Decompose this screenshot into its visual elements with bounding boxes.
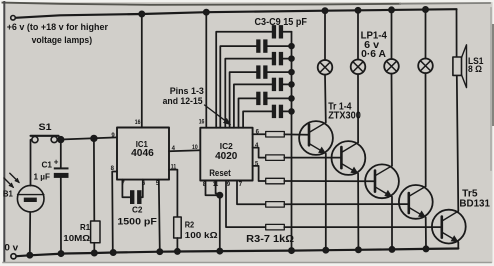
wire LP3 to Tr3 collector — [391, 74, 394, 166]
node R1 ground — [92, 250, 97, 255]
resistor R1 — [91, 138, 100, 253]
transistor Tr1 — [299, 121, 333, 155]
node Tr3 emitter ground — [389, 247, 394, 252]
resistor R7 — [266, 224, 285, 230]
photocell B1 — [4, 173, 44, 212]
capacitor C6 — [230, 65, 292, 127]
svg-text:ZTX300: ZTX300 — [328, 111, 361, 122]
svg-text:BD131: BD131 — [459, 198, 490, 209]
wire IC2 pin11 to 0v — [216, 181, 220, 251]
wire IC1 pin6 to C2 — [142, 180, 143, 198]
capacitor C1 — [54, 140, 69, 254]
svg-text:B1: B1 — [3, 189, 13, 199]
wire B1 to 0v rail — [29, 212, 31, 255]
capacitor C4 — [220, 39, 291, 127]
node B1 ground — [27, 253, 32, 258]
svg-text:C1: C1 — [42, 159, 53, 169]
0v ground rail — [17, 249, 459, 257]
transistor Tr4 — [399, 185, 433, 219]
wire R5 to Tr3 base — [284, 180, 375, 182]
node IC2 pin11 ground — [217, 249, 222, 254]
node LP1 rail — [322, 8, 327, 13]
wire Tr5 collector to speaker — [457, 75, 459, 211]
resistor R2 — [174, 217, 182, 238]
node LP3 rail — [389, 7, 394, 12]
resistor R4 — [266, 155, 285, 161]
wire B1 top to S1 — [31, 140, 32, 186]
svg-text:100 kΩ: 100 kΩ — [185, 230, 218, 240]
label Tr1-4 — [328, 101, 361, 121]
svg-text:+6 v (to +18 v for higher: +6 v (to +18 v for higher — [7, 22, 109, 32]
node IC1 pin8 ground — [157, 249, 162, 254]
wire R4 to Tr2 base — [284, 157, 341, 159]
svg-text:R2: R2 — [185, 219, 195, 229]
node R1 top — [91, 136, 97, 142]
wire LP1 to Tr1 collector — [324, 75, 327, 123]
transistor Tr2 — [332, 141, 366, 175]
capacitor C7 — [234, 78, 292, 128]
node bus C5 — [289, 56, 294, 61]
resistor R5 — [266, 178, 285, 184]
node R2 ground — [175, 249, 180, 254]
node LP4 rail — [423, 7, 428, 12]
node C1 top — [58, 137, 64, 143]
capacitor C2 — [130, 190, 142, 204]
node LP2 rail — [355, 8, 360, 13]
svg-text:C3-C9 15 pF: C3-C9 15 pF — [255, 17, 307, 28]
wire R7 to Tr5 base — [284, 226, 442, 228]
wire R6 to Tr4 base — [284, 203, 409, 205]
capacitor C5 — [225, 52, 291, 128]
svg-text:C2: C2 — [132, 205, 143, 215]
svg-text:R1: R1 — [80, 222, 90, 232]
wire R3 to Tr1 base — [284, 133, 309, 135]
svg-text:1 µF: 1 µF — [34, 171, 51, 181]
svg-text:0·6 A: 0·6 A — [361, 48, 386, 60]
node Tr1 emitter ground — [323, 248, 328, 253]
wire LP2 to Tr2 collector — [357, 74, 359, 142]
svg-text:16: 16 — [135, 120, 141, 126]
svg-text:voltage lamps): voltage lamps) — [32, 35, 93, 45]
wire Tr5 emitter to 0v — [457, 242, 459, 248]
IC1 4046 box — [117, 128, 169, 180]
svg-text:Reset: Reset — [209, 168, 231, 178]
capacitor C9 — [243, 105, 291, 128]
0v terminal — [11, 254, 16, 259]
svg-text:10: 10 — [192, 145, 198, 151]
resistor R6 — [266, 202, 285, 208]
wire IC2 pin4 to R4 — [253, 148, 266, 158]
node IC1 pin5 ground — [111, 250, 116, 255]
svg-text:S1: S1 — [39, 122, 52, 132]
resistor R3 — [266, 132, 285, 138]
node C1 ground — [58, 251, 63, 256]
wire capacitor common bus — [291, 32, 293, 251]
wire Tr3 emitter to 0v — [391, 197, 393, 249]
wire IC1 pin5 to 0v — [112, 172, 117, 253]
wire Tr1 emitter to 0v — [325, 154, 327, 251]
node bus C9 — [289, 109, 294, 114]
lamp LP2 column wire — [357, 10, 359, 59]
node Tr4 emitter ground — [423, 246, 428, 251]
label +6v — [7, 22, 109, 45]
wire LP4 to Tr4 collector — [425, 73, 427, 186]
svg-text:11: 11 — [171, 164, 177, 170]
svg-text:1500 pF: 1500 pF — [117, 217, 157, 227]
wire IC1 pin11 to R2 — [169, 170, 177, 217]
wire IC2 pin7 to R6 — [237, 181, 266, 205]
wire Tr2 emitter to 0v — [357, 174, 359, 250]
wire IC1 pin8 to 0v — [159, 180, 160, 252]
svg-text:8 Ω: 8 Ω — [468, 64, 482, 74]
svg-text:IC2: IC2 — [220, 141, 233, 151]
node Tr2 emitter ground — [356, 247, 361, 252]
wire IC1 pin7 to C2 — [122, 180, 130, 198]
label LP1-4 — [361, 30, 387, 61]
switch S1 — [31, 136, 59, 143]
wire IC2 pin8 — [206, 181, 220, 196]
+6v supply rail — [15, 9, 456, 18]
wire speaker to +6v — [456, 9, 458, 57]
svg-text:10MΩ: 10MΩ — [63, 233, 90, 243]
svg-text:+: + — [54, 158, 59, 167]
node IC2 pin16 rail — [204, 10, 209, 15]
wire IC2 pin16 to +6v — [205, 12, 207, 128]
annotation arrow pins 1-3 — [205, 105, 231, 124]
wire IC1 pin4 to IC2 pin10 — [169, 150, 200, 151]
lamp LP4 — [418, 59, 433, 74]
lamp LP1 — [318, 60, 333, 75]
svg-text:4020: 4020 — [215, 151, 238, 162]
wire IC2 pin6 to R3 — [253, 133, 266, 135]
wire IC2 pin5 to R5 — [253, 166, 266, 181]
svg-text:Pins 1-3: Pins 1-3 — [170, 86, 204, 96]
svg-text:0 v: 0 v — [4, 243, 19, 254]
svg-text:11: 11 — [213, 182, 219, 188]
node bus C8 — [289, 96, 294, 101]
wire Tr4 emitter to 0v — [425, 217, 427, 248]
lamp LP3 column wire — [391, 10, 393, 59]
wire IC1 pin16 to +6v — [141, 14, 143, 128]
transistor Tr3 — [365, 164, 399, 198]
lamp LP4 column wire — [425, 10, 427, 59]
wire R2 to 0v — [176, 238, 178, 251]
svg-text:16: 16 — [199, 120, 205, 126]
speaker LS1 — [453, 45, 467, 88]
IC2 4020 box — [200, 128, 252, 181]
lamp LP2 — [351, 60, 366, 75]
node pin8/pin11 join — [217, 193, 222, 198]
node IC1 pin16 rail — [139, 11, 144, 16]
lamp LP3 — [384, 59, 399, 74]
label pins annotation — [163, 86, 204, 106]
+6v terminal — [11, 15, 16, 20]
node bus C7 — [289, 82, 294, 87]
svg-text:4046: 4046 — [131, 148, 154, 159]
wire IC2 pin9 to R7 — [226, 181, 266, 228]
node bus C4 — [289, 44, 294, 49]
transistor Tr5 — [432, 210, 466, 244]
node bus C6 — [289, 70, 294, 75]
svg-text:R3-7 1kΩ: R3-7 1kΩ — [246, 234, 294, 245]
wire S1 to IC1 pin 9 — [57, 137, 117, 139]
capacitor C8 — [239, 92, 292, 128]
node bus ground — [289, 248, 294, 253]
lamp LP1 column wire — [324, 11, 326, 60]
svg-text:and 12-15: and 12-15 — [163, 96, 203, 106]
capacitor C3 — [216, 25, 291, 128]
